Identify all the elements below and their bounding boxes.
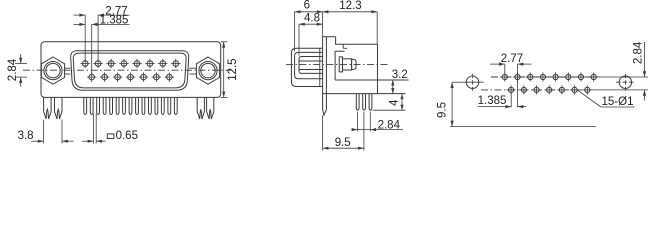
dimension 3.2 (side) bbox=[392, 80, 394, 94]
dimension 9.5 (side) bbox=[322, 116, 324, 151]
svg-text:4: 4 bbox=[389, 99, 401, 106]
jackscrew end bbox=[339, 57, 342, 72]
svg-text:2.84: 2.84 bbox=[633, 41, 645, 64]
svg-text:9.5: 9.5 bbox=[436, 102, 448, 118]
body top profile bbox=[336, 37, 378, 45]
footprint bottom row centerline bbox=[481, 89, 590, 91]
svg-text:2.77: 2.77 bbox=[501, 53, 523, 65]
dimension 12.5 (front, right) bbox=[221, 41, 228, 43]
contact pins top row (8) bbox=[82, 61, 88, 67]
solder pins side (3) bbox=[356, 94, 359, 110]
stud lines right nut bbox=[189, 67, 196, 69]
svg-text:12.3: 12.3 bbox=[339, 0, 361, 12]
dimension 4.8 (side) bbox=[299, 23, 323, 25]
dimension 1.385 (front) bbox=[74, 23, 86, 25]
footprint holes bottom row (7) bbox=[509, 87, 514, 92]
svg-text:6: 6 bbox=[304, 0, 310, 12]
label 15-diameter-1 bbox=[578, 90, 602, 107]
shell side inner outline bbox=[295, 52, 323, 78]
dimension 0.65 square pin (front) bbox=[93, 114, 95, 144]
svg-text:2.84: 2.84 bbox=[378, 120, 401, 132]
ground bracket bbox=[335, 51, 344, 80]
dimension 2.84 (footprint, right) bbox=[597, 76, 648, 78]
right hex jackscrew nut bbox=[196, 57, 219, 84]
D-shell inner outline bbox=[73, 53, 186, 88]
ext lines top dims (side) bbox=[294, 12, 296, 52]
dimension 2.77 (front) bbox=[74, 14, 86, 16]
dimension 4 (side) bbox=[373, 109, 406, 111]
dimension 2.77 (footprint) bbox=[490, 63, 505, 65]
shell side outer outline bbox=[291, 48, 322, 86]
extension lines for 2.77 and 1.385 (front) bbox=[84, 15, 86, 60]
svg-text:4.8: 4.8 bbox=[304, 12, 320, 24]
right boardlock legs bbox=[197, 97, 204, 119]
svg-text:1.385: 1.385 bbox=[478, 95, 507, 107]
shell rear edge bbox=[319, 48, 321, 86]
boardlock leg side bbox=[323, 94, 327, 116]
hex nut side profile bbox=[299, 57, 323, 74]
left hex jackscrew nut bbox=[41, 57, 64, 84]
svg-text:3.8: 3.8 bbox=[18, 130, 34, 142]
side view centerline bbox=[286, 63, 390, 65]
front view centerline bbox=[23, 69, 232, 71]
nut facet lines bbox=[299, 60, 322, 62]
svg-text:0.65: 0.65 bbox=[116, 130, 138, 142]
body bottom edge (extends as ext line for dim 4) bbox=[323, 93, 406, 95]
connector flange (front view) bbox=[41, 42, 221, 98]
svg-text:15-Ø1: 15-Ø1 bbox=[602, 96, 634, 108]
D-shell outer outline bbox=[71, 51, 189, 91]
dimension 6 (side) bbox=[295, 11, 323, 13]
dimension 2.84 (front, left) bbox=[15, 63, 27, 65]
body right edge bbox=[377, 44, 379, 93]
flange side bbox=[322, 37, 324, 94]
svg-text:1.385: 1.385 bbox=[100, 15, 129, 27]
svg-text:2.84: 2.84 bbox=[7, 58, 19, 81]
solder tails below flange (15) bbox=[84, 97, 87, 114]
right mounting hole bbox=[619, 76, 631, 88]
left boardlock legs bbox=[44, 97, 52, 119]
svg-text:9.5: 9.5 bbox=[335, 137, 351, 149]
dimension 3.8 (front, bottom left) bbox=[43, 120, 45, 144]
contact pins bottom row (7) bbox=[89, 74, 95, 80]
dimension 2.84 (side) bbox=[356, 112, 358, 132]
dimension 1.385 (footprint) bbox=[478, 106, 512, 108]
stud lines left nut bbox=[65, 67, 71, 69]
svg-text:12.5: 12.5 bbox=[227, 58, 239, 80]
left mounting hole bbox=[466, 76, 478, 88]
dimension 9.5 (footprint, left) bbox=[452, 81, 463, 83]
dimension 12.3 (side) bbox=[323, 11, 378, 13]
ext lines 2.77/1.385 (footprint) bbox=[504, 64, 506, 74]
bracket bottom / ext line for 3.2 bbox=[335, 79, 408, 81]
footprint top row centerline bbox=[491, 76, 597, 78]
footprint holes top row (8) bbox=[502, 74, 507, 79]
svg-text:3.2: 3.2 bbox=[392, 69, 408, 81]
